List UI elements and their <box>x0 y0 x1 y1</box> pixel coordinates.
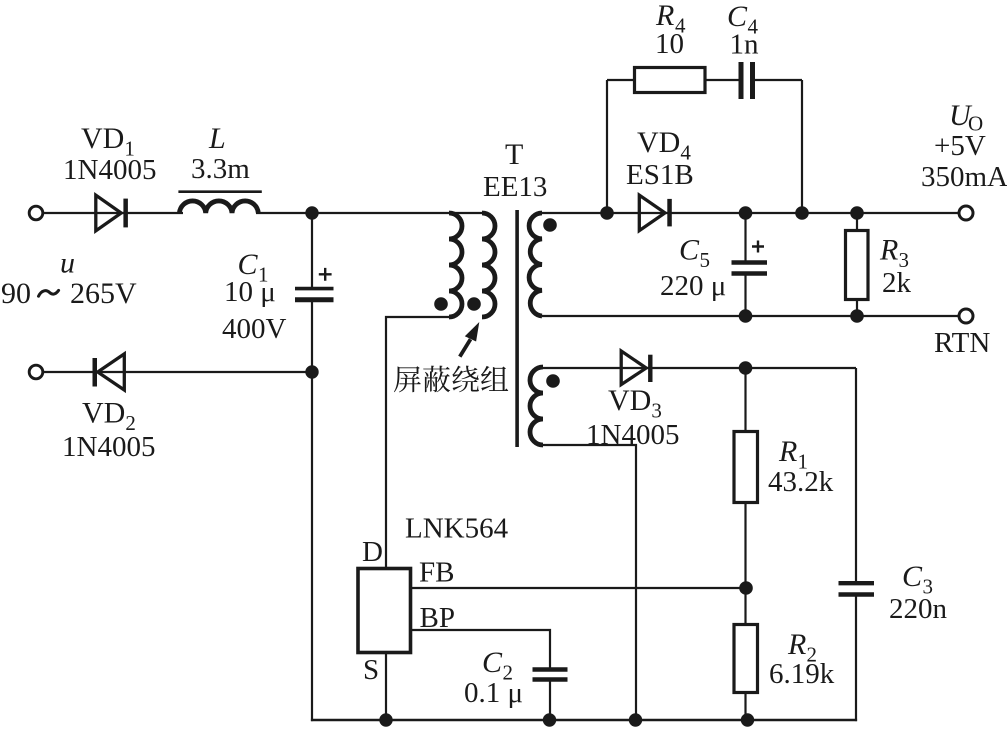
capacitor C4 <box>739 62 744 99</box>
aux return node dot <box>629 713 642 726</box>
diode VD3 <box>621 351 646 385</box>
svg-text:0.1 μ: 0.1 μ <box>464 677 523 709</box>
svg-text:EE13: EE13 <box>483 171 547 203</box>
diode VD4 <box>639 195 665 230</box>
svg-text:C: C <box>679 234 700 267</box>
wire R4 to C4 <box>705 79 739 81</box>
svg-text:400V: 400V <box>222 313 287 345</box>
svg-text:1N4005: 1N4005 <box>63 154 156 186</box>
wire L to primary top <box>256 212 483 214</box>
aux top wire <box>543 367 856 369</box>
RTN terminal <box>959 309 973 323</box>
snubber right node dot <box>795 206 809 220</box>
resistor R3 <box>856 213 858 231</box>
secondary winding <box>529 213 542 316</box>
C5 top node dot <box>739 206 753 220</box>
svg-text:C: C <box>482 646 503 679</box>
snubber left node dot <box>600 206 614 220</box>
wire terminal to VD2 <box>43 371 313 373</box>
wire C1 to VD2 node <box>311 301 313 373</box>
svg-text:1n: 1n <box>730 29 760 61</box>
svg-text:R: R <box>778 435 797 468</box>
wire aux bottom to rail <box>543 445 636 720</box>
S pin wire <box>385 653 387 720</box>
svg-text:2k: 2k <box>882 267 912 299</box>
svg-text:6.19k: 6.19k <box>769 658 835 690</box>
aux phase dot <box>546 374 560 388</box>
resistor R1 <box>744 368 746 432</box>
shield label arrow <box>460 339 471 356</box>
svg-text:R: R <box>879 234 898 267</box>
diode VD2 <box>93 358 98 387</box>
resistor R4 <box>635 68 706 93</box>
output terminal Uo <box>959 206 973 220</box>
wire primary bottom to D rail <box>386 317 449 569</box>
svg-text:90: 90 <box>1 277 31 310</box>
svg-text:220 μ: 220 μ <box>660 270 726 302</box>
FB pin wire <box>411 587 746 589</box>
svg-text:R: R <box>787 628 806 661</box>
snubber left riser <box>606 80 608 213</box>
capacitor C3 <box>839 581 875 585</box>
IC U1 LNK564 box <box>358 569 411 653</box>
svg-text:265V: 265V <box>70 277 137 310</box>
svg-text:220n: 220n <box>889 593 948 625</box>
input terminal top <box>29 206 43 220</box>
C5 bottom node dot <box>739 309 753 323</box>
RTN line <box>542 315 960 317</box>
svg-text:1N4005: 1N4005 <box>62 431 155 463</box>
capacitor C1 <box>295 287 334 291</box>
wire C4 to right riser <box>754 79 802 81</box>
svg-text:u: u <box>60 247 75 280</box>
node dot C1 top <box>305 206 318 219</box>
svg-text:RTN: RTN <box>934 327 990 359</box>
svg-text:350mA: 350mA <box>921 161 1007 193</box>
R1 top node dot <box>739 361 753 375</box>
transformer core <box>515 210 519 447</box>
input terminal bottom <box>29 365 43 379</box>
R3 bottom node dot <box>850 309 864 323</box>
R3 top node dot <box>850 206 864 220</box>
svg-text:LNK564: LNK564 <box>405 513 509 545</box>
svg-text:+5V: +5V <box>934 130 986 162</box>
svg-text:T: T <box>505 138 523 171</box>
C2 node dot <box>543 713 556 726</box>
node dot VD2 <box>305 365 318 378</box>
R2 bottom node dot <box>741 713 754 726</box>
wire C5 to RTN line <box>744 275 746 316</box>
inductor L bar <box>178 190 261 193</box>
wire to C5 <box>744 213 746 262</box>
wire node down left rail <box>311 372 313 721</box>
svg-text:10: 10 <box>655 28 684 60</box>
svg-text:3.3m: 3.3m <box>191 153 250 185</box>
svg-text:1N4005: 1N4005 <box>586 419 679 451</box>
shield phase dot <box>467 297 481 311</box>
BP pin wire <box>411 630 550 668</box>
snubber top wire left <box>607 79 635 81</box>
svg-text:L: L <box>208 122 226 155</box>
label shield winding <box>394 366 421 392</box>
wire C2 to rail <box>549 681 551 720</box>
inductor L coil <box>179 201 258 213</box>
wire C3 to rail <box>855 596 857 721</box>
diode VD1 <box>96 195 121 231</box>
svg-text:S: S <box>363 654 379 686</box>
svg-text:5: 5 <box>700 248 711 272</box>
svg-text:BP: BP <box>420 602 455 634</box>
wire node to C1 <box>311 213 313 288</box>
secondary phase dot <box>543 218 557 232</box>
S node dot <box>379 713 392 726</box>
primary phase dot <box>434 297 448 311</box>
resistor R2 <box>744 588 746 625</box>
svg-text:D: D <box>362 536 383 568</box>
transformer T shield winding <box>482 213 495 317</box>
FB node dot <box>739 581 753 595</box>
bottom rail <box>311 719 857 721</box>
capacitor C5 <box>732 260 768 264</box>
svg-text:43.2k: 43.2k <box>768 466 834 498</box>
capacitor C2 <box>533 667 568 671</box>
snubber right riser <box>801 80 803 213</box>
svg-text:ES1B: ES1B <box>626 159 694 191</box>
svg-text:FB: FB <box>419 557 454 589</box>
aux winding <box>530 367 543 445</box>
wire VD3 to C3 branch <box>855 368 857 582</box>
svg-text:10 μ: 10 μ <box>224 276 276 308</box>
svg-text:C: C <box>902 560 923 593</box>
transformer T primary winding <box>449 213 462 317</box>
wire input to VD1 <box>43 212 184 214</box>
secondary top wire <box>542 212 960 214</box>
